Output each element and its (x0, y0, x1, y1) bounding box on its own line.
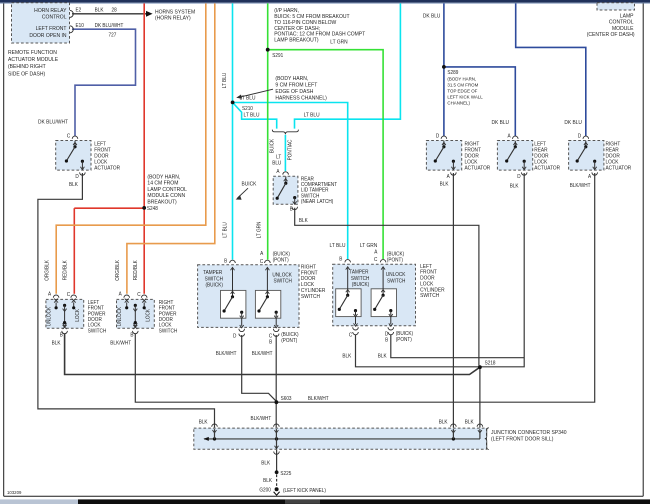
pin E10 (70, 23, 84, 33)
svg-text:(BUICK): (BUICK) (281, 332, 299, 338)
svg-text:(HORN RELAY): (HORN RELAY) (155, 15, 191, 21)
svg-text:ORG/BLK: ORG/BLK (115, 259, 121, 280)
svg-text:LT GRN: LT GRN (330, 39, 348, 45)
svg-text:REAR: REAR (301, 176, 314, 182)
svg-text:E10: E10 (76, 23, 85, 29)
svg-text:BLK/WHT: BLK/WHT (570, 183, 591, 189)
svg-text:BLK: BLK (199, 419, 208, 425)
svg-text:CONTROL: CONTROL (42, 14, 67, 20)
wire DK BLU S289 branch to LR door lock actuator pin A (444, 67, 515, 136)
svg-text:(PONT): (PONT) (281, 338, 297, 344)
svg-text:(BODY HARN,: (BODY HARN, (275, 76, 308, 82)
note S289 body harness location (447, 76, 483, 105)
svg-text:SWITCH: SWITCH (351, 276, 370, 282)
svg-text:BLK/WHT: BLK/WHT (308, 396, 329, 402)
svg-text:S225: S225 (280, 471, 291, 477)
svg-text:RED/BLK: RED/BLK (133, 260, 139, 281)
svg-text:DOOR: DOOR (88, 317, 102, 323)
svg-text:BLK: BLK (52, 340, 61, 346)
svg-text:BLK: BLK (378, 353, 387, 359)
svg-text:ACTUATOR: ACTUATOR (534, 165, 560, 171)
wire RED/BLK branch S248 to LF power switch pin C (74, 208, 144, 294)
svg-text:SWITCH: SWITCH (274, 278, 293, 284)
svg-text:COMPARTMENT: COMPARTMENT (301, 182, 337, 188)
svg-text:SWITCH: SWITCH (420, 293, 439, 299)
wire LT BLU brace to rear lid tamper switch pin A (284, 135, 286, 171)
svg-text:(BODY HARN,: (BODY HARN, (447, 76, 476, 81)
note body harness dash channel with leader arrow (236, 76, 327, 102)
svg-text:S289: S289 (447, 70, 458, 76)
svg-text:BLK: BLK (440, 181, 449, 187)
svg-text:LAMP BREAKOUT): LAMP BREAKOUT) (274, 37, 319, 43)
label DK BLU at RR actuator (564, 120, 582, 126)
label DK BLU top (423, 13, 441, 19)
svg-text:LT BLU: LT BLU (304, 112, 320, 118)
svg-text:C: C (374, 257, 378, 263)
svg-text:UNLOCK: UNLOCK (117, 306, 123, 326)
svg-text:LT BLU: LT BLU (330, 243, 346, 249)
svg-text:G200: G200 (259, 487, 271, 493)
svg-text:E2: E2 (76, 7, 82, 13)
svg-text:BLK/WHT: BLK/WHT (252, 351, 273, 357)
svg-text:(BEHIND RIGHT: (BEHIND RIGHT (8, 64, 46, 70)
wire BLK from LF cylinder switch pin D/B joining LR actuator wire (391, 335, 524, 358)
svg-text:BLK: BLK (342, 353, 351, 359)
splice S210 (231, 101, 253, 113)
right front door lock actuator (426, 133, 490, 187)
wire BLK/WHT from RF cylinder switch pin C/B through S603 to junction connector (275, 335, 277, 428)
svg-text:HORN RELAY: HORN RELAY (34, 8, 67, 14)
svg-text:S210: S210 (242, 106, 253, 112)
splice S603 (275, 396, 292, 404)
svg-text:(BUICK): (BUICK) (273, 251, 291, 257)
label LT BLU on pontiac branch (304, 112, 320, 118)
svg-text:LEFT FRONT: LEFT FRONT (36, 26, 68, 32)
label LT BLU top vertical (222, 72, 228, 88)
svg-text:DK BLU: DK BLU (564, 120, 582, 126)
svg-text:LOCK: LOCK (88, 322, 101, 328)
label LT BLU LF cylinder (330, 243, 346, 249)
svg-text:PONTIAC: PONTIAC (287, 139, 293, 160)
svg-text:D: D (385, 331, 389, 337)
svg-text:C: C (67, 292, 71, 298)
svg-text:(BUICK): (BUICK) (352, 282, 370, 288)
svg-text:31.5 CM FROM: 31.5 CM FROM (447, 82, 478, 87)
svg-text:BLK/WHT: BLK/WHT (216, 351, 237, 357)
wire E10 DK BLU/WHT 727 to LF door lock actuator pin C (72, 29, 136, 136)
label BUICK option (269, 138, 275, 153)
wire BLK from LF actuator pin D to junction connector SP340 (38, 173, 215, 428)
svg-text:UNLOCK: UNLOCK (272, 272, 292, 278)
wire LT BLU S210 lower branch to BUICK stub (233, 103, 277, 129)
svg-text:C: C (260, 259, 264, 265)
svg-text:D: D (517, 174, 521, 180)
svg-text:BLK/WHT: BLK/WHT (110, 340, 131, 346)
wire LT GRN vertical from top through splice S291 to RF cylinder unlock pin A/C (267, 3, 269, 259)
svg-text:REMOTE FUNCTION: REMOTE FUNCTION (8, 50, 57, 56)
svg-text:BLK: BLK (69, 182, 78, 188)
svg-text:C: C (137, 292, 141, 298)
label BLK below S225 (263, 478, 272, 484)
wire BLK from LR actuator pin D to splice S218 (480, 173, 524, 367)
splice S225 (275, 470, 292, 477)
svg-text:SWITCH: SWITCH (387, 278, 406, 284)
svg-text:S603: S603 (281, 396, 292, 402)
svg-text:S291: S291 (272, 53, 283, 59)
svg-text:DK BLU: DK BLU (423, 13, 441, 19)
brace merging BUICK/PONTIAC options (272, 130, 298, 135)
wire RED/BLK vertical from top through splice S248 (143, 3, 145, 293)
svg-text:ACTUATOR: ACTUATOR (94, 165, 120, 171)
label BLK left junction wire (199, 419, 208, 425)
junction connector SP340 (194, 424, 567, 454)
wire E2 BLK 28 horn relay control (72, 11, 153, 17)
wire BLK/WHT from RR actuator pin A to splice S603 (276, 173, 594, 402)
svg-text:SWITCH: SWITCH (159, 328, 178, 334)
ground G200 (left kick panel) (259, 487, 326, 495)
right front door lock cylinder switch (198, 251, 326, 357)
splice S218 (478, 360, 496, 369)
wire BLK/WHT from RF cylinder switch pin D to splice S603 (242, 335, 277, 401)
svg-text:LEFT KICK WALL: LEFT KICK WALL (447, 94, 483, 99)
wire LT GRN S291 branch to LF cylinder unlock pin A/C (268, 50, 383, 259)
svg-text:SWITCH: SWITCH (301, 193, 320, 199)
right rear door lock actuator (569, 133, 632, 189)
note I/P harness breakout (274, 8, 366, 44)
svg-text:BUICK: BUICK (269, 138, 275, 153)
wire ORG/BLK from top to LF power switch pin A (56, 3, 206, 293)
wire BLK from LF cylinder switch pin C to splice S218 (356, 335, 480, 367)
svg-text:TAMPER: TAMPER (349, 269, 369, 275)
svg-text:RED/BLK: RED/BLK (62, 260, 68, 281)
rear compartment lid tamper switch (273, 172, 337, 213)
remote function actuator module (8, 3, 70, 78)
svg-text:TOP EDGE OF: TOP EDGE OF (447, 88, 477, 93)
svg-text:LT: LT (276, 154, 281, 160)
label PONTIAC option (287, 139, 293, 160)
svg-text:UNLOCK: UNLOCK (386, 272, 406, 278)
label BLK/WHT junction wire (251, 416, 272, 422)
bottom taskbar (0, 499, 650, 504)
svg-text:LT BLU: LT BLU (240, 95, 256, 101)
label LT GRN vertical RF cylinder (256, 221, 262, 238)
wire BLK splice S218 down to junction connector SP340 (479, 367, 481, 427)
svg-text:C: C (269, 333, 273, 339)
label DK BLU at LR actuator (492, 120, 510, 126)
svg-text:LID TAMPER: LID TAMPER (301, 187, 329, 193)
note S248 body harness lamp control module conn (147, 174, 187, 205)
svg-text:BLK: BLK (261, 460, 270, 466)
label DK BLU/WHT at LF actuator (38, 119, 69, 125)
label BLK RF actuator junction wire (439, 419, 448, 425)
svg-text:CHANNEL): CHANNEL) (447, 100, 470, 105)
svg-text:LT GRN: LT GRN (360, 243, 378, 249)
svg-text:LT BLU: LT BLU (244, 112, 260, 118)
wire LT BLU vertical from top through splice S210 to RF cylinder tamper pin B (232, 3, 234, 259)
svg-text:LOCK: LOCK (159, 322, 172, 328)
svg-text:ACTUATOR: ACTUATOR (606, 165, 632, 171)
svg-text:103209: 103209 (7, 490, 22, 495)
label LT BLU on S210 branch (244, 112, 260, 118)
left rear door lock actuator (497, 133, 560, 190)
svg-text:UNLOCK: UNLOCK (46, 306, 52, 326)
svg-text:SWITCH: SWITCH (205, 276, 224, 282)
label BLK/WHT from S603 to right (308, 396, 329, 402)
svg-text:BLK: BLK (95, 7, 104, 13)
svg-text:BLK: BLK (439, 419, 448, 425)
svg-text:RIGHT: RIGHT (159, 300, 174, 306)
svg-text:C: C (349, 332, 353, 338)
label BLK 28 horn wire (95, 7, 117, 13)
svg-text:DOOR: DOOR (159, 317, 173, 323)
svg-text:ACTUATOR MODULE: ACTUATOR MODULE (8, 57, 59, 63)
svg-text:FRONT: FRONT (159, 305, 175, 311)
svg-text:DOOR OPEN IN: DOOR OPEN IN (29, 33, 66, 39)
svg-text:9 CM FROM LEFT: 9 CM FROM LEFT (275, 82, 318, 88)
svg-text:C: C (67, 133, 71, 139)
wire BLK junction connector to splice S225 and ground G200 (276, 450, 278, 487)
svg-text:(BUICK): (BUICK) (206, 282, 224, 288)
svg-text:(PONT): (PONT) (387, 257, 403, 263)
label BUICK annotation arrow at LT BLU (236, 181, 257, 200)
svg-text:(BUICK): (BUICK) (387, 251, 405, 257)
svg-text:DK BLU/WHT: DK BLU/WHT (38, 119, 69, 125)
splice S291 (266, 48, 284, 59)
wire ORG/BLK from top to RF power switch pin A (127, 3, 215, 293)
label LT BLU vertical RF cylinder (222, 222, 228, 238)
svg-text:BLU: BLU (272, 160, 281, 166)
svg-text:LT BLU: LT BLU (222, 72, 228, 88)
wire BLK from LF power switch pin B to splice S218 (65, 334, 480, 375)
svg-text:POWER: POWER (88, 311, 106, 317)
svg-text:D: D (233, 333, 237, 339)
label BLK above S225 (261, 460, 270, 466)
svg-text:(NEAR LATCH): (NEAR LATCH) (301, 199, 334, 205)
svg-text:S248: S248 (147, 206, 158, 212)
wire BLK from rear lid tamper switch pin B to splice S218 (295, 208, 479, 366)
svg-text:ORG/BLK: ORG/BLK (44, 259, 50, 280)
splice S289 (442, 65, 459, 76)
svg-text:LOCK: LOCK (145, 308, 151, 321)
svg-text:(LEFT KICK PANEL): (LEFT KICK PANEL) (283, 488, 326, 494)
svg-text:ACTUATOR: ACTUATOR (465, 165, 491, 171)
svg-text:D: D (436, 133, 440, 139)
wire BLK from RF actuator pin A down to junction connector SP340 (452, 173, 454, 428)
svg-text:(BUICK): (BUICK) (396, 331, 414, 337)
drawing number 103209 (7, 490, 22, 495)
pin E2 (70, 7, 82, 17)
left front door lock actuator (56, 133, 121, 188)
svg-text:BREAKOUT): BREAKOUT) (147, 199, 177, 205)
wire DK BLU from top through splice S289 to RF door lock actuator pin D (443, 3, 445, 136)
svg-text:(PONT): (PONT) (396, 337, 412, 343)
svg-text:BLK: BLK (465, 419, 474, 425)
svg-text:EDGE OF DASH: EDGE OF DASH (275, 89, 313, 95)
wire LT BLU S210 branch to LF cylinder tamper pin B (233, 103, 348, 260)
svg-text:SWITCH: SWITCH (88, 328, 107, 334)
svg-text:LT GRN: LT GRN (256, 221, 262, 238)
svg-text:DK BLU: DK BLU (492, 120, 510, 126)
svg-text:SWITCH: SWITCH (301, 294, 320, 300)
label LT GRN near S291 (330, 39, 348, 45)
wire DK BLU from top (lamp control module) to RR door lock actuator pin D (516, 3, 586, 136)
left front door lock cylinder switch (333, 249, 445, 360)
svg-text:(PONT): (PONT) (273, 257, 289, 263)
splice S248 (142, 206, 158, 212)
wire LT BLU from top via right side to PONTIAC stub (295, 3, 401, 128)
wire BLK/WHT from RF power switch pin B to splice S603 (135, 334, 276, 403)
svg-text:S218: S218 (485, 360, 496, 366)
label BLK S218 junction wire (465, 419, 474, 425)
svg-text:DK BLU/WHT: DK BLU/WHT (95, 23, 124, 29)
svg-text:BLK: BLK (510, 183, 519, 189)
svg-text:D: D (75, 174, 79, 180)
svg-text:LT BLU: LT BLU (222, 222, 228, 238)
svg-text:LEFT: LEFT (88, 300, 99, 306)
svg-text:JUNCTION CONNECTOR SP340: JUNCTION CONNECTOR SP340 (491, 430, 567, 436)
svg-text:FRONT: FRONT (88, 305, 104, 311)
svg-text:(LEFT FRONT DOOR SILL): (LEFT FRONT DOOR SILL) (491, 436, 554, 442)
top window bar (0, 0, 650, 4)
svg-text:727: 727 (109, 32, 117, 38)
lamp control module (587, 3, 635, 39)
svg-text:TAMPER: TAMPER (203, 270, 223, 276)
label HORNS SYSTEM (HORN RELAY) (155, 9, 195, 22)
svg-text:BLK: BLK (263, 478, 272, 484)
left front power door lock switch (44, 259, 106, 346)
label LT GRN LF cylinder (360, 243, 378, 249)
label LT BLU pin A tamper switch (272, 154, 281, 175)
svg-text:BUICK: BUICK (242, 181, 257, 187)
label BLK tamper switch wire (299, 218, 308, 224)
right front power door lock switch (110, 259, 177, 346)
svg-text:28: 28 (112, 7, 117, 13)
svg-text:BLK: BLK (299, 218, 308, 224)
svg-text:BLK/WHT: BLK/WHT (251, 416, 272, 422)
svg-text:D: D (578, 133, 582, 139)
svg-text:(CENTER OF DASH): (CENTER OF DASH) (587, 32, 635, 38)
label DK BLU/WHT 727 (95, 23, 124, 39)
svg-text:SIDE OF DASH): SIDE OF DASH) (8, 71, 45, 77)
svg-text:LOCK: LOCK (75, 308, 81, 321)
svg-text:HARNESS CHANNEL): HARNESS CHANNEL) (275, 95, 327, 101)
svg-text:POWER: POWER (159, 311, 177, 317)
